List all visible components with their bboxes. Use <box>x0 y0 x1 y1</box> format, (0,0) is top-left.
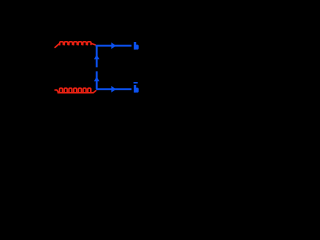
current arrow (top wire, pointing right) <box>111 42 116 49</box>
inductor L2 (bottom coil) <box>55 88 96 93</box>
wire (vertical upper segment, from top node down) <box>96 46 98 68</box>
wire (bottom horizontal, node to b-bar) <box>96 88 131 90</box>
wire (top horizontal, node to b) <box>96 45 132 47</box>
current arrow (vertical wire lower, pointing up) <box>94 77 100 82</box>
current arrow (vertical wire upper, pointing up) <box>94 55 100 60</box>
node b <box>134 42 139 50</box>
current arrow (bottom wire, pointing right) <box>111 86 116 93</box>
wire (vertical lower segment, to bottom node) <box>96 71 98 89</box>
node b-bar <box>134 82 139 93</box>
inductor L1 (top coil) <box>55 42 95 48</box>
